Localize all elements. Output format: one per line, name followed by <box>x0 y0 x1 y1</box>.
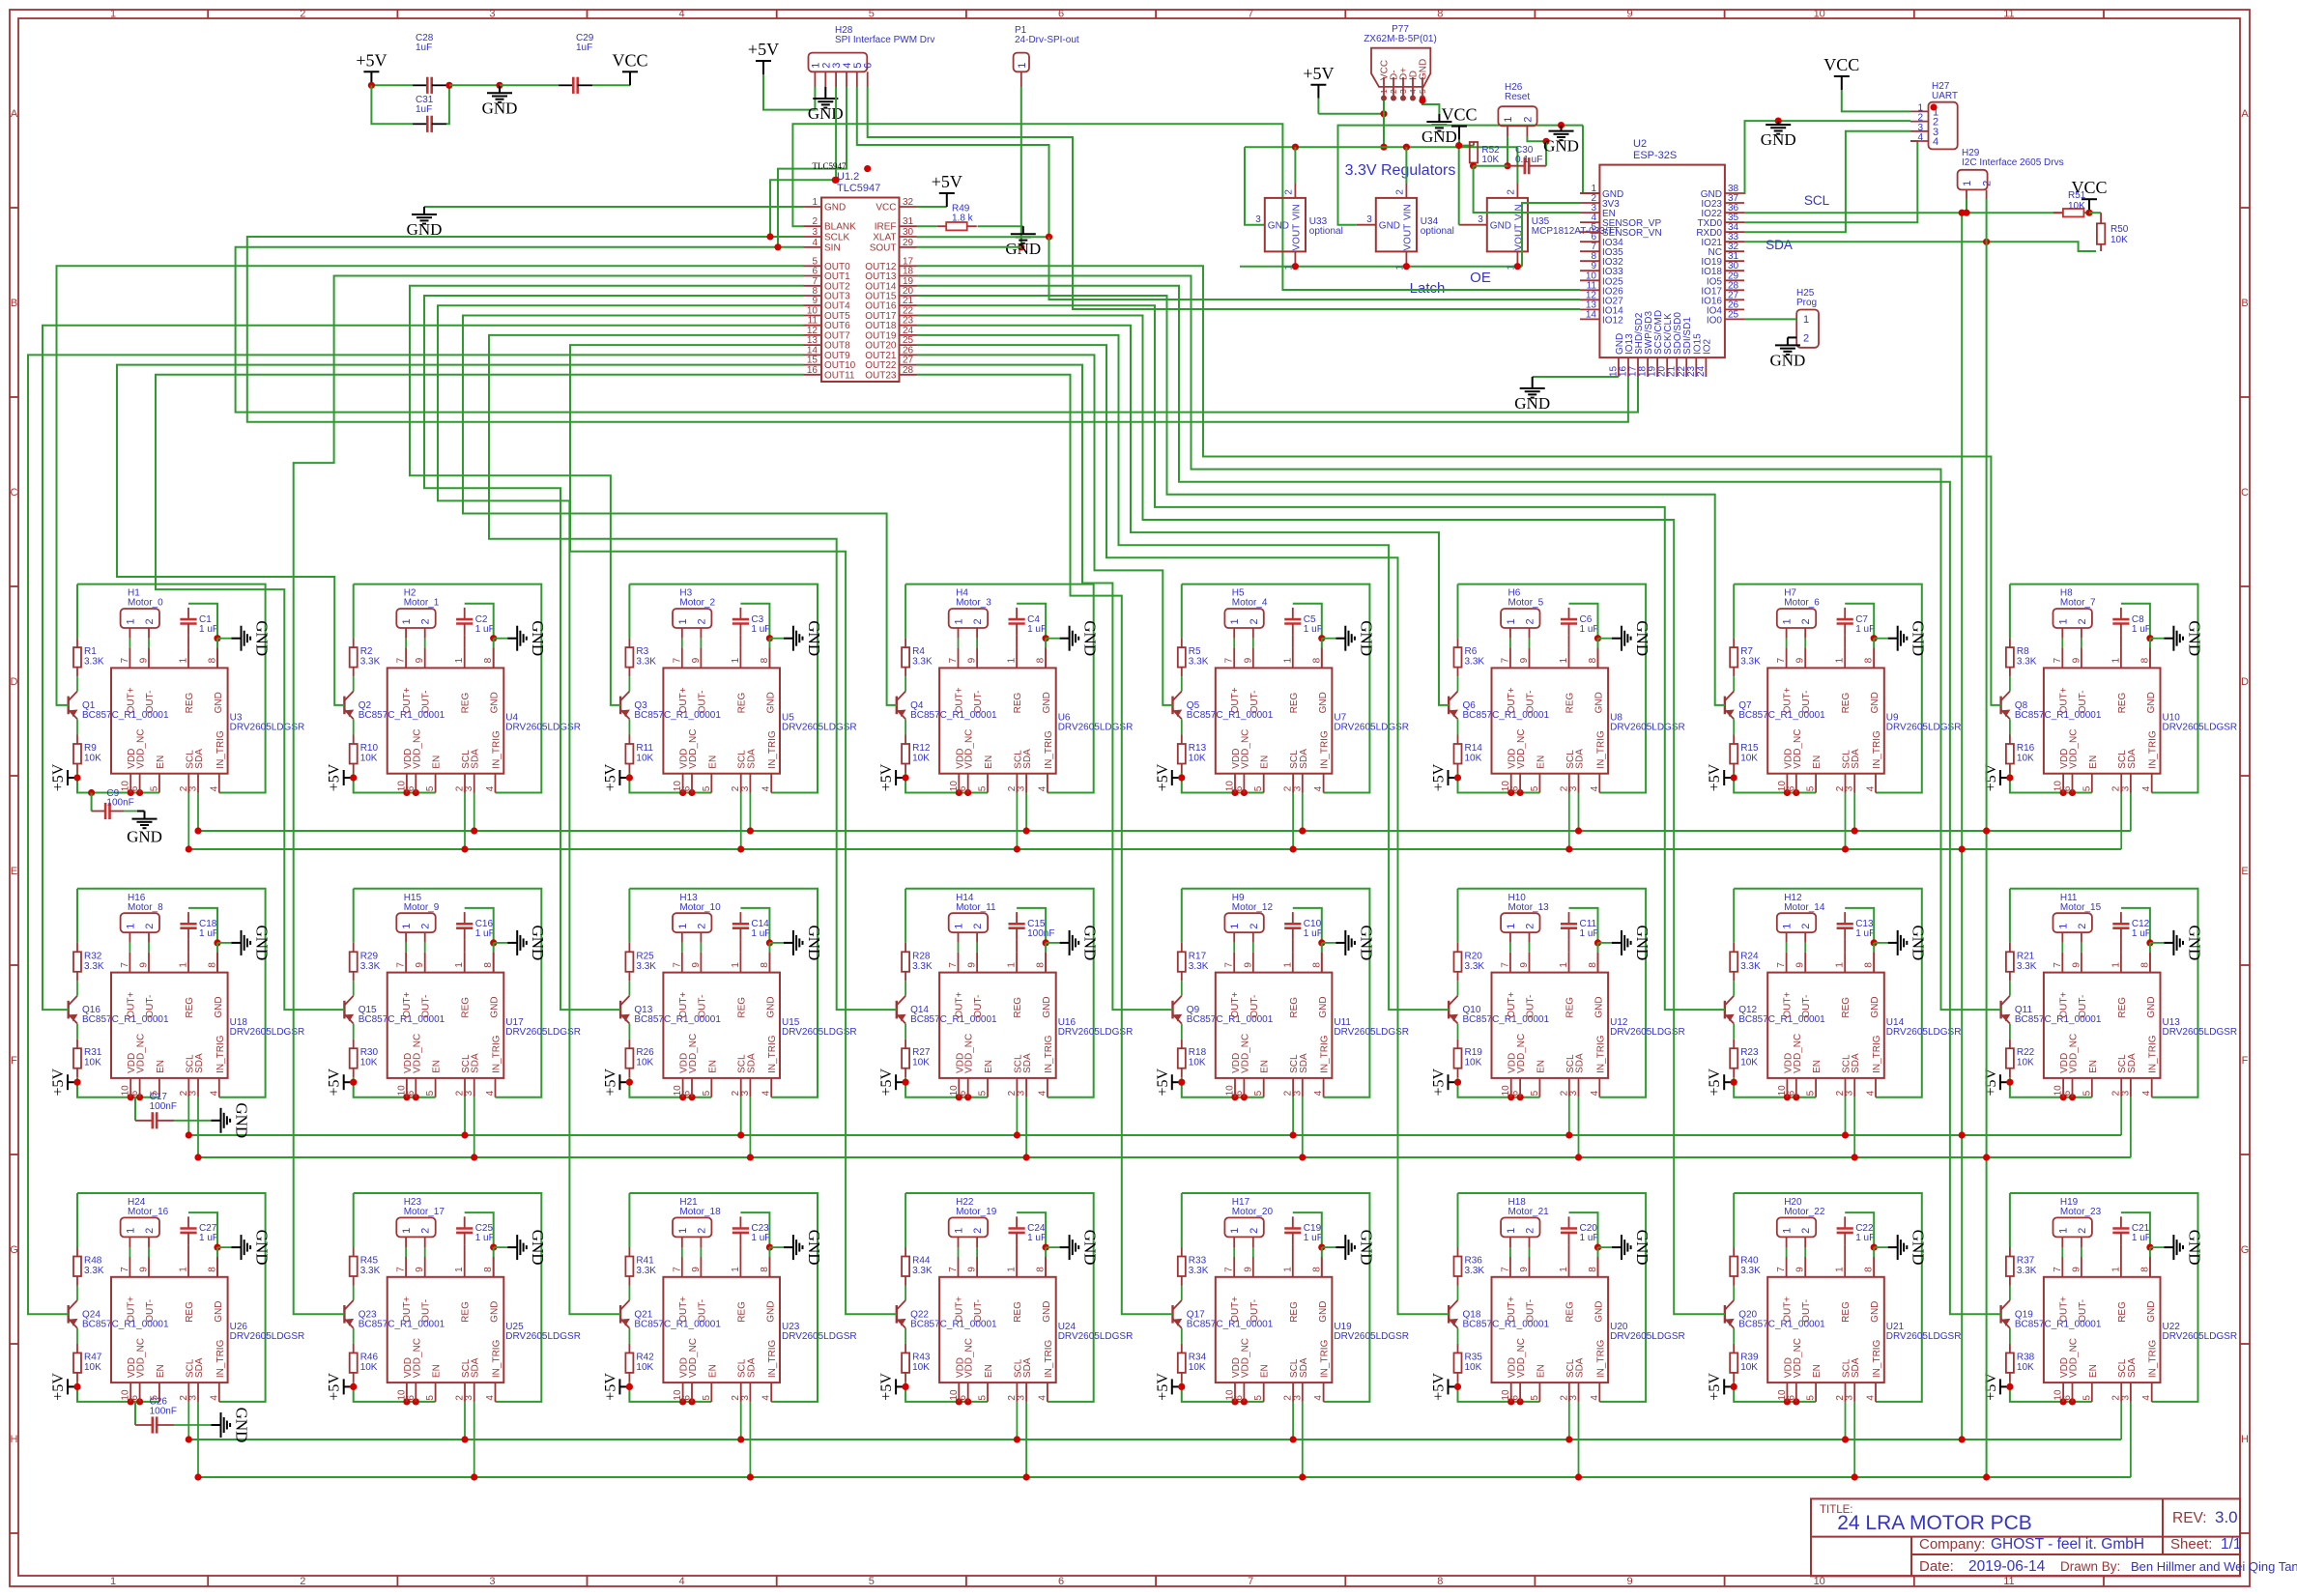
+5V supply <box>896 1385 905 1387</box>
svg-text:GND: GND <box>765 996 776 1017</box>
wire OUT net loop around block U10 <box>2010 584 2198 793</box>
svg-text:31: 31 <box>903 216 914 227</box>
svg-text:1: 1 <box>125 618 136 624</box>
wire cap to ground <box>124 811 137 812</box>
svg-text:2: 2 <box>1389 89 1398 94</box>
wire cap top to GND net <box>465 604 494 639</box>
svg-text:IN_TRIG: IN_TRIG <box>492 730 502 769</box>
IC U7 DRV2605LDGSR <box>1216 668 1333 773</box>
svg-text:REG: REG <box>461 997 472 1018</box>
IC pin 8 stub <box>1321 648 1323 669</box>
svg-text:8: 8 <box>1864 1267 1875 1272</box>
svg-text:7: 7 <box>1776 962 1787 968</box>
ground <box>217 1246 232 1248</box>
svg-text:11: 11 <box>2003 9 2014 20</box>
svg-text:R27: R27 <box>912 1047 931 1058</box>
svg-text:4: 4 <box>209 1395 219 1401</box>
IC pin 8 stub <box>2149 1257 2151 1277</box>
svg-text:GND: GND <box>1318 1301 1329 1323</box>
ESP-32 right pins <box>1725 192 1744 194</box>
svg-text:2: 2 <box>1800 618 1812 624</box>
svg-text:EN: EN <box>1812 1364 1823 1378</box>
svg-text:OUT+: OUT+ <box>2058 991 2069 1017</box>
svg-text:3.3K: 3.3K <box>636 1266 656 1276</box>
resistor R48 3.3K <box>76 1247 78 1257</box>
svg-text:10K: 10K <box>912 754 930 764</box>
svg-text:IN_TRIG: IN_TRIG <box>1044 1035 1054 1073</box>
svg-text:GND: GND <box>1909 925 1928 960</box>
transistor Q4 BC857C <box>896 697 898 715</box>
wire ESP GND pin38 riser <box>1744 121 1910 193</box>
svg-text:OUT+: OUT+ <box>1230 1297 1241 1323</box>
ground <box>494 638 508 640</box>
wire OUT12 net <box>917 266 2001 705</box>
motor header H15 (Motor_9) <box>396 913 435 932</box>
svg-text:1: 1 <box>2057 1228 2069 1234</box>
IC pin 8 stub <box>768 1257 770 1277</box>
svg-text:5: 5 <box>1418 89 1427 94</box>
svg-text:R15: R15 <box>1740 743 1759 754</box>
svg-text:VDD_NC: VDD_NC <box>1240 729 1250 769</box>
wire OUT net loop around block U12 <box>1458 889 1647 1097</box>
svg-text:GND: GND <box>765 1301 776 1323</box>
transistor Q3 BC857C <box>619 697 621 715</box>
wire header to OUT pins <box>958 943 960 953</box>
wire Q to R <box>353 719 355 734</box>
svg-text:VDD_NC: VDD_NC <box>2069 729 2080 769</box>
svg-text:SDA: SDA <box>1299 749 1309 769</box>
transistor Q1 BC857C <box>67 697 69 715</box>
wire SDA to bus <box>1578 1097 1580 1157</box>
svg-text:A: A <box>2241 108 2249 120</box>
svg-text:R18: R18 <box>1189 1047 1207 1058</box>
svg-text:7: 7 <box>120 657 130 663</box>
wire R to Q <box>904 981 906 995</box>
svg-text:2: 2 <box>1506 189 1516 195</box>
svg-text:1: 1 <box>1559 657 1569 663</box>
svg-text:R35: R35 <box>1465 1352 1483 1362</box>
svg-text:10K: 10K <box>2068 201 2085 212</box>
svg-text:9: 9 <box>1519 657 1530 663</box>
svg-text:SDA: SDA <box>2127 749 2138 769</box>
svg-text:IN_TRIG: IN_TRIG <box>492 1035 502 1073</box>
wire SCL to bus <box>740 793 742 850</box>
svg-text:R9: R9 <box>84 743 97 754</box>
svg-text:+5V: +5V <box>1707 1068 1723 1096</box>
svg-text:R4: R4 <box>912 646 925 657</box>
ground <box>1046 1246 1060 1248</box>
capacitor C24 1 uF <box>1016 1216 1018 1228</box>
wire R to Q <box>904 676 906 691</box>
title block <box>1811 1498 2240 1576</box>
svg-text:GND: GND <box>1379 221 1400 232</box>
wire R to Q <box>1181 676 1183 691</box>
wire header to OUT pins <box>1233 1247 1235 1257</box>
svg-text:10: 10 <box>1814 1576 1825 1587</box>
svg-text:EN: EN <box>2088 755 2099 769</box>
svg-text:5: 5 <box>869 9 875 20</box>
svg-text:R11: R11 <box>636 743 653 754</box>
wire SCL to bus <box>1845 793 1847 850</box>
svg-text:R30: R30 <box>360 1047 379 1058</box>
resistor R52 10K <box>1473 142 1475 146</box>
ground <box>2150 942 2165 944</box>
svg-text:1: 1 <box>731 962 741 968</box>
resistor R41 3.3K <box>628 1247 630 1257</box>
svg-text:Motor_13: Motor_13 <box>1508 902 1550 913</box>
wire R to Q <box>76 981 78 995</box>
svg-text:IN_TRIG: IN_TRIG <box>215 1339 226 1378</box>
IC U17 DRV2605LDGSR <box>388 973 504 1078</box>
IC U21 DRV2605LDGSR <box>1767 1277 1884 1382</box>
wire SDA to bus <box>1025 1402 1027 1477</box>
svg-text:7: 7 <box>948 1267 959 1272</box>
svg-text:2: 2 <box>1800 924 1812 929</box>
resistor R29 3.3K <box>353 943 355 953</box>
svg-text:7: 7 <box>948 657 959 663</box>
wire cap top to GND net <box>1293 908 1322 943</box>
svg-text:GND: GND <box>490 1301 501 1323</box>
svg-text:Latch: Latch <box>1410 280 1446 297</box>
IC U26 DRV2605LDGSR <box>111 1277 228 1382</box>
wire OUT net loop around block U5 <box>629 584 818 793</box>
svg-text:R39: R39 <box>1740 1352 1759 1362</box>
svg-text:7: 7 <box>1224 657 1235 663</box>
svg-text:OUT+: OUT+ <box>955 687 965 713</box>
svg-text:+5V: +5V <box>932 172 962 191</box>
svg-text:10K: 10K <box>360 1362 378 1373</box>
motor header H21 (Motor_18) <box>673 1217 711 1237</box>
transistor Q22 BC857C <box>896 1305 898 1324</box>
junction dot 100nF cap <box>88 789 95 796</box>
wire Q to R <box>1733 1328 1735 1344</box>
svg-text:E: E <box>2241 866 2248 877</box>
svg-text:5: 5 <box>702 1090 712 1096</box>
svg-text:4: 4 <box>1866 1090 1877 1096</box>
svg-text:6: 6 <box>1058 1576 1064 1587</box>
wire OUT net loop around block U3 <box>77 584 266 793</box>
svg-text:6: 6 <box>863 63 875 69</box>
resistor R43 10K <box>904 1344 906 1354</box>
svg-text:IO2: IO2 <box>1702 338 1712 355</box>
transistor Q19 BC857C <box>1999 1305 2001 1324</box>
wire SCL to bus <box>740 1402 742 1439</box>
wire Q to R <box>1733 719 1735 734</box>
svg-text:R40: R40 <box>1740 1256 1759 1267</box>
svg-text:10K: 10K <box>2017 754 2034 764</box>
svg-text:2: 2 <box>1525 924 1536 929</box>
svg-text:REG: REG <box>1289 997 1300 1018</box>
svg-text:2: 2 <box>2077 1228 2088 1234</box>
svg-text:DRV2605LDGSR: DRV2605LDGSR <box>1058 1331 1134 1342</box>
svg-text:EN: EN <box>432 1060 443 1073</box>
svg-text:OUT-: OUT- <box>145 995 156 1018</box>
svg-text:GND: GND <box>765 692 776 713</box>
svg-text:REG: REG <box>1841 693 1852 714</box>
svg-text:GND: GND <box>1594 692 1605 713</box>
+5V supply <box>344 1385 354 1387</box>
svg-text:IREF: IREF <box>875 222 897 233</box>
IC pin 8 stub <box>2149 953 2151 973</box>
wire XLAT <box>917 236 1049 238</box>
svg-text:Motor_22: Motor_22 <box>1784 1207 1825 1217</box>
+5V supply <box>1172 1385 1182 1387</box>
svg-text:EN: EN <box>1812 1060 1823 1073</box>
header H29 I2C Interface 2605 Drvs <box>1958 170 1988 190</box>
wire cap to ground <box>174 1424 212 1426</box>
wire cap top to GND net <box>465 1212 494 1247</box>
svg-text:OUT+: OUT+ <box>2058 687 2069 713</box>
ESP-32 left pins <box>1580 192 1599 194</box>
svg-text:SDA: SDA <box>1766 238 1793 252</box>
svg-text:Motor_3: Motor_3 <box>956 598 991 609</box>
capacitor C16 1 uF <box>464 912 466 924</box>
wire Q to R <box>904 719 906 734</box>
svg-text:1: 1 <box>1017 63 1028 69</box>
wire Q to R <box>2009 1024 2011 1040</box>
svg-text:R24: R24 <box>1740 951 1759 961</box>
svg-text:VIN: VIN <box>1291 204 1302 220</box>
svg-text:7: 7 <box>672 1267 682 1272</box>
svg-text:1: 1 <box>2057 924 2069 929</box>
svg-text:OUT+: OUT+ <box>678 1297 689 1323</box>
svg-text:SDA: SDA <box>471 1357 481 1378</box>
svg-text:R48: R48 <box>84 1256 102 1267</box>
ground <box>1787 337 1789 345</box>
svg-text:7: 7 <box>396 657 407 663</box>
svg-text:3.3K: 3.3K <box>1740 657 1761 668</box>
svg-text:OUT+: OUT+ <box>1507 687 1517 713</box>
wire Q to R <box>353 1024 355 1040</box>
ground <box>769 942 784 944</box>
wire VCC to H27 pin1 <box>1842 90 1910 111</box>
resistor R9 10K <box>76 735 78 745</box>
svg-text:OUT-: OUT- <box>697 1299 707 1323</box>
svg-text:REG: REG <box>1565 1301 1576 1323</box>
svg-text:5: 5 <box>2082 1090 2092 1096</box>
svg-text:REG: REG <box>1841 997 1852 1018</box>
svg-text:7: 7 <box>1500 962 1510 968</box>
wire R49 to ground <box>978 225 1023 227</box>
wire SDA to bus <box>474 1097 475 1157</box>
svg-text:3: 3 <box>1255 214 1261 225</box>
svg-text:U2: U2 <box>1633 138 1647 150</box>
svg-text:24: 24 <box>1696 365 1707 377</box>
ground <box>824 97 826 99</box>
svg-text:B: B <box>11 298 17 309</box>
wire C30 right to GND net <box>1545 141 1547 165</box>
svg-text:U1.2: U1.2 <box>837 171 859 183</box>
svg-text:OUT+: OUT+ <box>402 1297 413 1323</box>
wire OUT17 net <box>917 316 1725 1315</box>
wire SCL to bus <box>2120 1402 2122 1439</box>
svg-text:Motor_2: Motor_2 <box>679 598 715 609</box>
svg-text:1: 1 <box>1835 1267 1846 1272</box>
junction dots VDD pins <box>679 1094 686 1100</box>
wire SCL from ESP IO22 <box>1744 212 2063 214</box>
svg-text:VIN: VIN <box>1402 204 1413 220</box>
svg-text:Date:: Date: <box>1919 1558 1954 1575</box>
wire OUT net loop around block U22 <box>2010 1193 2198 1402</box>
svg-text:R3: R3 <box>636 646 648 657</box>
IC pin 8 stub <box>2149 648 2151 669</box>
capacitor C8 1 uF <box>2120 608 2122 619</box>
wire cap top to GND net <box>740 908 769 943</box>
wire SDA to bus <box>197 793 199 832</box>
svg-text:9: 9 <box>1243 1267 1253 1272</box>
svg-text:1 uF: 1 uF <box>2132 1233 2151 1243</box>
svg-text:REG: REG <box>2117 693 2128 714</box>
svg-text:3.3K: 3.3K <box>84 1266 104 1276</box>
wire cap top to GND net <box>1293 604 1322 639</box>
svg-text:VDD_NC: VDD_NC <box>2069 1034 2080 1073</box>
svg-text:7: 7 <box>1224 962 1235 968</box>
wire R to Q <box>2009 981 2011 995</box>
svg-text:GND: GND <box>1357 925 1375 960</box>
svg-text:Drawn By:: Drawn By: <box>2060 1559 2120 1574</box>
svg-text:4: 4 <box>1866 1395 1877 1401</box>
svg-text:10K: 10K <box>84 1362 101 1373</box>
svg-text:1: 1 <box>454 657 465 663</box>
svg-text:I2C Interface 2605 Drvs: I2C Interface 2605 Drvs <box>1962 157 2064 168</box>
wire TXD0 to H27 pin4 <box>1744 141 1917 222</box>
IC U5 DRV2605LDGSR <box>663 668 780 773</box>
wire header to OUT pins <box>1233 943 1235 953</box>
svg-text:5: 5 <box>702 1395 712 1401</box>
svg-text:R29: R29 <box>360 951 379 961</box>
svg-text:+5V: +5V <box>1155 763 1171 791</box>
svg-text:3: 3 <box>1366 214 1372 225</box>
svg-text:Motor_6: Motor_6 <box>1784 598 1820 609</box>
ground <box>1322 638 1336 640</box>
IC pin 8 stub <box>216 648 218 669</box>
svg-text:1uF: 1uF <box>576 43 592 53</box>
motor header H13 (Motor_10) <box>673 913 711 932</box>
junction dots VDD pins <box>679 1398 686 1405</box>
svg-text:VDD_NC: VDD_NC <box>136 1034 147 1073</box>
svg-text:IN_TRIG: IN_TRIG <box>767 1339 778 1378</box>
svg-text:OUT+: OUT+ <box>402 991 413 1017</box>
+5V supply <box>1172 1081 1182 1083</box>
wire RXD0 to H27 pin3 <box>1744 131 1910 233</box>
wire OUT net loop around block U26 <box>77 1193 266 1402</box>
svg-text:1 uF: 1 uF <box>1027 624 1047 635</box>
+5V supply <box>1317 85 1319 99</box>
wire Q to R <box>353 1328 355 1344</box>
svg-text:1 uF: 1 uF <box>1304 624 1323 635</box>
svg-text:OUT11: OUT11 <box>824 370 855 381</box>
wire header to OUT pins <box>958 1247 960 1257</box>
wire R to +5V rail <box>2010 1382 2092 1402</box>
IC pin 8 stub <box>1045 648 1047 669</box>
IC pin 8 stub <box>1597 1257 1599 1277</box>
IC U8 DRV2605LDGSR <box>1492 668 1609 773</box>
wire header to OUT pins <box>2061 1247 2063 1257</box>
wire cap top to GND net <box>1845 1212 1874 1247</box>
svg-text:9: 9 <box>415 962 425 968</box>
svg-text:Reset: Reset <box>1505 92 1530 102</box>
svg-text:VDD_NC: VDD_NC <box>136 1338 147 1378</box>
svg-text:IN_TRIG: IN_TRIG <box>1320 1035 1331 1073</box>
svg-text:100nF: 100nF <box>150 1406 177 1416</box>
svg-text:GHOST - feel it. GmbH: GHOST - feel it. GmbH <box>1991 1536 2144 1553</box>
svg-text:4: 4 <box>1933 136 1938 148</box>
wire SDA to bus <box>749 1402 751 1477</box>
IC bottom pin stubs <box>2062 1382 2064 1402</box>
svg-text:9: 9 <box>1243 657 1253 663</box>
svg-text:8: 8 <box>1588 1267 1598 1272</box>
svg-text:GND: GND <box>529 1230 547 1266</box>
wire R to +5V rail <box>2010 773 2092 793</box>
IC bottom pin stubs <box>1510 1078 1512 1097</box>
ground <box>1598 942 1613 944</box>
motor header H22 (Motor_19) <box>949 1217 988 1237</box>
wire header to OUT pins <box>1786 943 1788 953</box>
wire header to OUT pins <box>405 639 407 648</box>
svg-text:9: 9 <box>1519 1267 1530 1272</box>
svg-text:5: 5 <box>978 1395 989 1401</box>
IC pin 8 stub <box>216 953 218 973</box>
svg-text:R38: R38 <box>2017 1352 2035 1362</box>
svg-text:Company:: Company: <box>1919 1536 1985 1553</box>
svg-text:3.3K: 3.3K <box>84 657 104 668</box>
svg-text:1: 1 <box>1559 962 1569 968</box>
svg-text:IO0: IO0 <box>1707 315 1723 326</box>
wire OUT net loop around block U7 <box>1182 584 1370 793</box>
svg-text:100nF: 100nF <box>1027 928 1054 939</box>
svg-text:1: 1 <box>1229 924 1241 929</box>
svg-text:R25: R25 <box>636 951 654 961</box>
svg-text:EN: EN <box>1260 1364 1271 1378</box>
svg-text:1: 1 <box>1007 962 1018 968</box>
svg-text:1: 1 <box>1782 618 1794 624</box>
wire cap top to GND net <box>2121 1212 2150 1247</box>
wire SDA to bus <box>1302 1097 1304 1157</box>
svg-text:3.3K: 3.3K <box>1740 1266 1761 1276</box>
svg-text:4: 4 <box>761 1090 772 1096</box>
wire R to +5V rail <box>629 1077 711 1097</box>
wire R to Q <box>1457 981 1459 995</box>
IC U19 DRV2605LDGSR <box>1216 1277 1333 1382</box>
+5V supply <box>68 1385 77 1387</box>
wire P77 GND to ground <box>1422 100 1439 114</box>
svg-text:4: 4 <box>485 1090 496 1096</box>
svg-text:R43: R43 <box>912 1352 931 1362</box>
svg-text:F: F <box>11 1055 17 1067</box>
svg-text:EN: EN <box>2088 1060 2099 1073</box>
wire H28 pin5 to XLAT net <box>857 87 1049 237</box>
svg-text:REG: REG <box>1289 1301 1300 1323</box>
wire H28 pin2 to ground <box>824 87 826 97</box>
svg-text:SDA: SDA <box>1575 749 1586 769</box>
wire H26 pin1 to EN net <box>1507 136 1508 166</box>
svg-text:10K: 10K <box>912 1058 930 1069</box>
IC U25 DRV2605LDGSR <box>388 1277 504 1382</box>
svg-text:+5V: +5V <box>1983 1373 1999 1401</box>
wire OUT net loop around block U14 <box>1734 889 1922 1097</box>
wire header to OUT pins <box>1233 639 1235 648</box>
capacitor C3 1 uF <box>739 608 741 619</box>
wire H28 pin3 to SCLK net <box>770 87 836 237</box>
svg-text:GND: GND <box>253 925 272 960</box>
svg-text:1/1: 1/1 <box>2221 1536 2242 1553</box>
wire U35 VIN <box>1516 147 1518 184</box>
+5V supply <box>1449 1081 1458 1083</box>
svg-text:9: 9 <box>1519 962 1530 968</box>
svg-text:GND: GND <box>1909 1230 1928 1266</box>
wire SDA down to I2C buses <box>1986 199 1988 1477</box>
svg-text:10K: 10K <box>1189 1058 1206 1069</box>
